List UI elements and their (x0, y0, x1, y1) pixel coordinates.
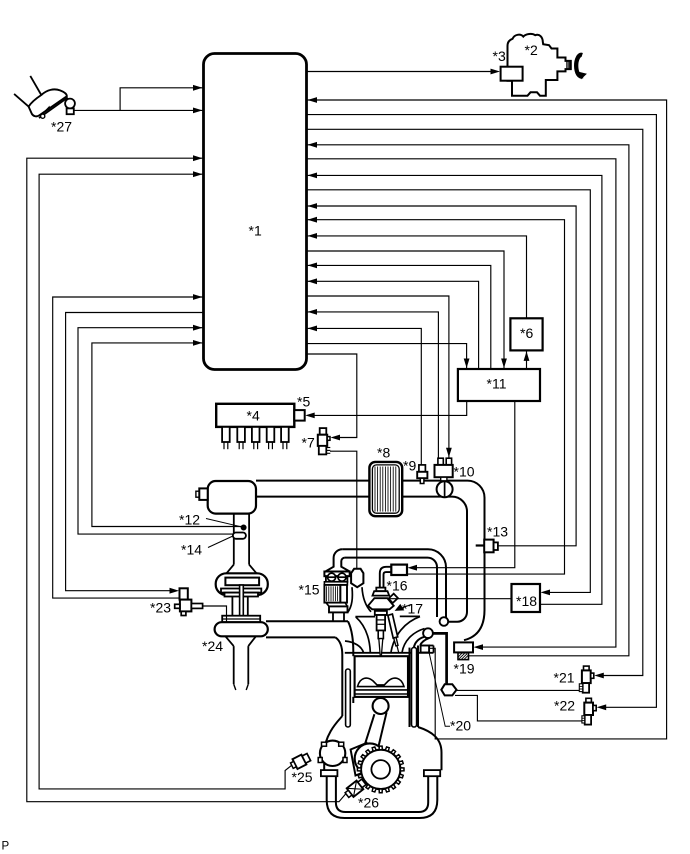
pipe *23 to exhaust (203, 606, 227, 622)
arrowhead into *5 (305, 413, 315, 419)
svg-text:*6: *6 (520, 325, 533, 341)
*24 tail pipe (233, 646, 235, 684)
oil pan flange caps (321, 770, 338, 776)
temp sensor dot *12 (241, 525, 246, 530)
*24 center rod (240, 585, 244, 628)
sensor *9 (419, 465, 426, 472)
piston pin (373, 698, 389, 714)
arrowhead into *21 (594, 673, 604, 679)
crankcase bell (418, 727, 442, 770)
wire W17 *9 to ECM (307, 328, 421, 465)
throttle valve circle (437, 481, 453, 497)
svg-text:*5: *5 (297, 394, 310, 410)
wire *18 to injector *17 (389, 598, 511, 600)
arrowhead into *16 (408, 565, 418, 571)
wire L1b pedal to ECM (73, 109, 203, 111)
svg-text:*26: *26 (358, 795, 379, 811)
wire L7 *12 to ECM (92, 343, 242, 527)
wire W6 ECM to *19 (307, 159, 616, 647)
hose *7 to manifold hex (330, 451, 357, 568)
wire W8 ECM to *18 (307, 190, 590, 593)
arrowhead into *18 (541, 590, 551, 596)
*24 step plates (221, 589, 261, 593)
crank position sensor *26 (344, 778, 368, 800)
wire L3 *25 to ECM (39, 174, 292, 789)
wire W7 *18 to ECM (307, 175, 602, 604)
pointer line label *12 (206, 519, 241, 527)
wire *11 to *5 (311, 401, 467, 415)
arrowhead into *6 (524, 351, 530, 361)
*15 bottom flange (329, 606, 348, 612)
knock sensor *20 (421, 646, 430, 653)
arrowheads into ECM right edge (308, 97, 318, 103)
oil control valve *3 (501, 67, 523, 81)
wire W10 *16 to ECM (307, 220, 565, 574)
wire L6 *14 to ECM (78, 328, 233, 534)
svg-text:*11: *11 (487, 376, 507, 392)
duct cone into *24 (227, 565, 234, 574)
air cleaner box (*12/*14 host) (208, 481, 256, 514)
svg-text:*15: *15 (299, 582, 320, 598)
svg-text:*1: *1 (249, 223, 262, 239)
ignition coil tube from *16 (380, 567, 392, 588)
ignition coil *16 (391, 565, 407, 575)
wire W5 *19 to ECM (307, 145, 629, 656)
wire W11 *6 to ECM (307, 236, 527, 318)
arrowheads into ECM left edge (193, 85, 203, 91)
intake port circle (423, 628, 433, 638)
svg-text:*12: *12 (179, 512, 200, 528)
svg-text:*13: *13 (487, 524, 508, 540)
manifold hex port (hose target) (351, 569, 363, 587)
piston ring lines (355, 689, 408, 691)
spark plug assembly (center) (376, 588, 385, 592)
svg-text:*10: *10 (454, 464, 475, 480)
svg-text:*16: *16 (387, 578, 408, 594)
svg-text:*2: *2 (525, 42, 538, 58)
arrowhead into *19 (474, 644, 484, 650)
cylinder head deck and ports (345, 652, 434, 654)
air cleaner duct (233, 514, 235, 565)
arrowhead into *3 (491, 69, 501, 75)
injectors under *4 (222, 427, 230, 442)
engine right horn curves (414, 637, 424, 648)
*24 lower cone (225, 636, 233, 646)
wire W13 *11 to ECM (307, 265, 491, 369)
EGR port circle (440, 617, 449, 626)
*15 butterfly housing (326, 576, 348, 582)
exhaust pipe to engine (266, 620, 348, 622)
pointer arrow label *17 (398, 605, 411, 610)
svg-text:*27: *27 (51, 119, 72, 135)
fuel damper hexagon (441, 684, 456, 695)
intake resonator assembly *24 upper donut (216, 573, 268, 595)
wire W9 *13 to ECM (307, 206, 576, 546)
svg-text:*4: *4 (247, 408, 260, 424)
wire L4 *23 to ECM (53, 297, 203, 598)
wire L1a pedal to ECM (120, 88, 203, 111)
svg-text:*9: *9 (403, 458, 416, 474)
fuel injector *17 (angled) (388, 614, 398, 638)
svg-text:*24: *24 (202, 638, 223, 654)
wire W16 *10 to ECM (307, 312, 438, 458)
igniter box *11 (458, 369, 540, 401)
pointer line label *14 (208, 536, 233, 548)
camshaft actuator *2 (508, 34, 571, 96)
link *6 to *11 (526, 350, 528, 369)
relay box *6 (510, 318, 542, 350)
svg-text:*22: *22 (554, 698, 575, 714)
wire W14 *11 to ECM (307, 281, 479, 369)
svg-text:*8: *8 (377, 445, 390, 461)
svg-text:*14: *14 (181, 542, 202, 558)
svg-text:*23: *23 (150, 600, 171, 616)
wire W1 ECM to *3 (307, 71, 492, 73)
wire L5 ECM to *23 (66, 313, 203, 591)
*24 mid duct (231, 597, 233, 616)
sensor *14 (233, 533, 246, 539)
ECM *1 (204, 54, 307, 370)
wire W18 ECM to *11 (307, 344, 467, 369)
wire W2 *20 to ECM (307, 100, 667, 739)
VSV *23 (180, 588, 188, 599)
intake pipe horizontals (256, 480, 369, 482)
oxygen sensor *22 (586, 698, 592, 702)
throttle body *8 (369, 462, 402, 516)
connecting rod (363, 714, 375, 751)
cylinder walls (341, 655, 343, 716)
*24 lower donut (215, 622, 268, 636)
rotation arrow at *2 (576, 55, 582, 77)
wire *11 to *16 (413, 401, 515, 568)
svg-text:*19: *19 (454, 661, 475, 677)
arrowhead into *7 (331, 435, 341, 441)
wire W3 ECM to *22 (307, 115, 656, 708)
svg-text:P: P (2, 841, 10, 853)
EDU box *18 (512, 584, 541, 612)
svg-text:*25: *25 (292, 769, 313, 785)
piston crown relief (358, 678, 405, 687)
svg-text:*18: *18 (516, 593, 537, 609)
crank tilted plate (351, 743, 372, 776)
svg-text:*17: *17 (402, 601, 423, 617)
VSV *7 (320, 428, 327, 435)
injector rail *4 (216, 404, 294, 427)
oil pan double wall (327, 776, 438, 818)
arrowhead into *10 (446, 448, 452, 458)
piston (355, 656, 408, 697)
EGR pipe over *15 (342, 549, 446, 618)
crank journal circle (355, 743, 385, 773)
svg-text:*20: *20 (450, 718, 471, 734)
crank trigger toothed wheel (361, 750, 400, 789)
*15 butterfly valves (328, 573, 336, 581)
arrowhead into *22 (597, 704, 607, 710)
engine left horn curves (336, 637, 343, 655)
accelerator pedal *27 (30, 76, 41, 95)
sensor *13 (476, 544, 485, 546)
oil pump body circle (*25 host) (320, 741, 345, 766)
arrowheads into *11 (501, 359, 507, 369)
VVT valve *19 (454, 642, 473, 652)
svg-text:*3: *3 (493, 48, 506, 64)
oxygen sensor *21 (584, 666, 590, 670)
wire W19 ECM to *7 (307, 354, 357, 438)
svg-text:*21: *21 (554, 670, 575, 686)
hose to fuel damper hexagon (433, 633, 447, 684)
wire L2 *26 to ECM (27, 158, 346, 802)
intake pipe right bend down (464, 481, 485, 641)
*15 mid plate (324, 582, 347, 585)
sensor *10 (438, 458, 443, 465)
connector *5 (294, 410, 304, 421)
wire W4 ECM to *21 (307, 129, 643, 675)
svg-text:*7: *7 (302, 435, 315, 451)
*15 hatched cooler block (324, 585, 340, 603)
wire hexagon to *21 pins (457, 689, 582, 691)
*15 EGR valve top plate (324, 572, 349, 577)
*24 flange pair (222, 616, 260, 623)
wire W15 ECM to *10 (307, 296, 449, 458)
arrowhead into *23 (170, 588, 180, 594)
wire W12 ECM to *11 (307, 251, 504, 369)
cam position sensor *25 (289, 752, 311, 770)
wire hexagon to *22 pins (455, 695, 582, 721)
left wall slot (346, 669, 351, 727)
right wall slot (412, 647, 417, 727)
pointer line label *20 (429, 653, 450, 727)
